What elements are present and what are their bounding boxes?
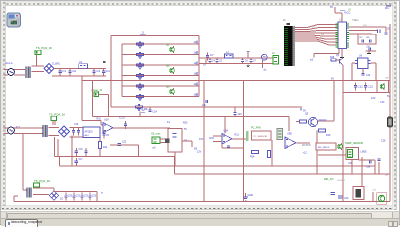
- svg-text:5V: 5V: [184, 128, 187, 131]
- svg-text:C2: C2: [72, 69, 76, 73]
- svg-text:C17: C17: [79, 159, 84, 161]
- svg-text:5V: 5V: [387, 95, 390, 98]
- svg-text:R10: R10: [97, 118, 102, 121]
- svg-text:U5B: U5B: [287, 133, 292, 136]
- svg-text:R9: R9: [144, 107, 148, 111]
- svg-text:C22: C22: [84, 195, 89, 197]
- svg-text:R13: R13: [235, 134, 240, 137]
- svg-text:C16: C16: [79, 149, 84, 151]
- svg-text:U2A: U2A: [104, 119, 109, 122]
- svg-text:C23: C23: [92, 195, 97, 197]
- svg-text:C3: C3: [96, 69, 100, 73]
- svg-text:C18: C18: [381, 140, 386, 143]
- svg-text:C12: C12: [368, 85, 374, 89]
- svg-text:12V: 12V: [238, 113, 243, 116]
- svg-text:+12: +12: [303, 152, 308, 155]
- svg-text:w: w: [101, 192, 103, 195]
- svg-text:AC1-A: AC1-A: [6, 62, 13, 65]
- svg-text:C1: C1: [62, 69, 66, 73]
- svg-text:LM35: LM35: [361, 151, 368, 154]
- svg-text:C14: C14: [153, 111, 158, 114]
- svg-text:R11: R11: [103, 146, 108, 149]
- svg-text:C7: C7: [210, 53, 214, 57]
- svg-text:2N2222: 2N2222: [319, 120, 328, 122]
- svg-text:5V: 5V: [330, 6, 333, 9]
- svg-text:C11: C11: [358, 85, 364, 89]
- svg-text:C13: C13: [380, 101, 385, 104]
- svg-text:SDA: SDA: [352, 19, 357, 22]
- svg-text:AP1501: AP1501: [85, 131, 94, 134]
- svg-text:D1: D1: [385, 6, 389, 10]
- svg-text:12V: 12V: [371, 97, 376, 100]
- svg-text:R16: R16: [326, 134, 331, 137]
- svg-text:C20: C20: [68, 195, 73, 197]
- svg-text:C21: C21: [76, 195, 81, 197]
- svg-text:C10: C10: [366, 75, 371, 77]
- svg-text:IRF9540: IRF9540: [302, 145, 312, 147]
- svg-text:C22: C22: [122, 142, 127, 144]
- svg-text:C15: C15: [74, 124, 79, 126]
- svg-text:ADJ: ADJ: [85, 134, 89, 137]
- svg-text:G5LE_1: G5LE_1: [337, 180, 346, 182]
- svg-text:U10: U10: [344, 197, 349, 200]
- svg-text:PC_SENSOR: PC_SENSOR: [254, 136, 268, 138]
- svg-text:IO: IO: [349, 10, 352, 12]
- svg-text:LM: LM: [373, 190, 376, 192]
- svg-text:REL_DC: REL_DC: [324, 178, 334, 181]
- svg-text:5V: 5V: [331, 77, 334, 80]
- svg-text:R20: R20: [183, 122, 188, 125]
- svg-text:12V: 12V: [199, 138, 204, 141]
- svg-text:GND: GND: [248, 194, 254, 197]
- svg-text:D_BR1: D_BR1: [53, 64, 61, 66]
- svg-text:TS_PQ4_16: TS_PQ4_16: [36, 46, 52, 50]
- svg-text:C19: C19: [366, 167, 371, 169]
- svg-text:R14: R14: [250, 156, 255, 159]
- svg-text:R15: R15: [210, 137, 215, 140]
- svg-text:G5_xxxx: G5_xxxx: [151, 133, 161, 136]
- svg-text:12V: 12V: [197, 151, 202, 154]
- svg-text:C4: C4: [106, 69, 110, 73]
- svg-text:PC_FAN: PC_FAN: [251, 127, 261, 130]
- svg-text:U5A: U5A: [224, 130, 229, 133]
- svg-text:C13: C13: [119, 116, 125, 120]
- svg-text:5V: 5V: [142, 109, 145, 112]
- svg-text:TEMP_SENSOR: TEMP_SENSOR: [345, 142, 363, 145]
- svg-text:IRF_NMOS: IRF_NMOS: [318, 147, 330, 149]
